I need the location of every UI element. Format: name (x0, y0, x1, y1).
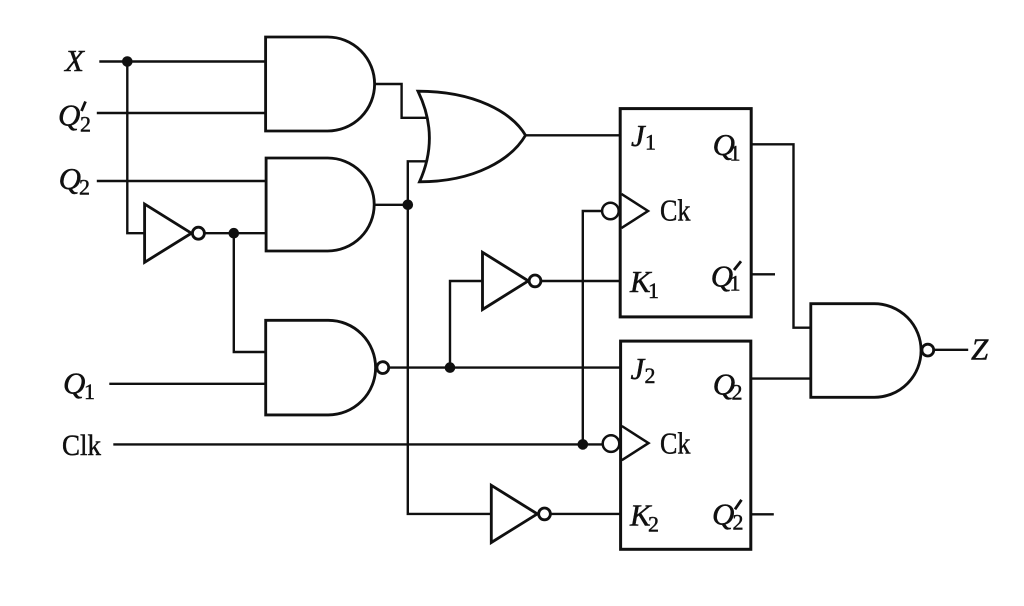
FF1 clock wedge (621, 194, 648, 228)
OR gate O1 (418, 91, 526, 182)
svg-text:X: X (63, 43, 85, 78)
svg-text:2: 2 (732, 380, 743, 405)
AND gate A1 (266, 37, 375, 131)
wire AND2 output to junction (374, 204, 408, 206)
wire Q2' stub (751, 513, 773, 515)
junction NAND1 output (445, 362, 456, 373)
wire Clk junction up to FF1 Ck (583, 211, 601, 444)
wire Clk input (115, 443, 603, 445)
junction X (122, 56, 133, 67)
svg-text:Ck: Ck (660, 426, 691, 461)
wire junction up to inverter2 (K1) (450, 281, 483, 368)
wire inverter1 junction down to NAND1 top input (234, 233, 267, 352)
svg-text:Z: Z (971, 332, 989, 367)
svg-text:2: 2 (645, 363, 656, 388)
flip-flop FF2 box (621, 341, 751, 549)
svg-text:Ck: Ck (660, 193, 691, 228)
inverter I2 (K1) triangle (483, 252, 529, 309)
junction inverter1 output (229, 228, 240, 239)
wire NAND1 output to J2 (390, 366, 622, 368)
svg-text:1: 1 (648, 278, 659, 303)
wire OR output to J1 (526, 134, 622, 136)
wire Q1' stub (751, 273, 774, 275)
wire inverter1 output to AND2 (206, 232, 267, 234)
AND gate A2 (266, 158, 374, 251)
wire Q1 output to NAND2 top input (751, 144, 811, 327)
svg-text:J: J (631, 351, 646, 386)
wire inverter3 output to K2 (551, 513, 621, 515)
wire Q2 input (98, 180, 266, 182)
svg-text:J: J (631, 118, 646, 153)
inverter I2 bubble (529, 275, 541, 287)
FF2 clock wedge (622, 426, 649, 460)
wire junction down to inverter3 (K2) (408, 205, 492, 514)
wire X input (101, 60, 267, 62)
FF1 clock bubble (602, 203, 619, 220)
wire X vertical to inverter (127, 62, 145, 234)
svg-text:Q: Q (63, 366, 85, 401)
svg-text:2: 2 (80, 112, 91, 137)
svg-text:2: 2 (648, 512, 659, 537)
wire Q2' input (98, 112, 266, 114)
svg-text:1: 1 (730, 271, 741, 296)
wire Q2 output to NAND2 bottom input (751, 377, 812, 379)
NAND gate N2 bubble (922, 344, 934, 356)
svg-text:Q: Q (59, 161, 81, 196)
FF2 clock bubble (603, 435, 620, 452)
svg-text:Q: Q (58, 98, 80, 133)
flip-flop FF1 box (620, 109, 751, 317)
wire inverter2 output to K1 (542, 280, 621, 282)
svg-text:1: 1 (645, 130, 656, 155)
NAND gate N1 body (266, 320, 376, 415)
wire junction up to OR bottom input (408, 161, 429, 205)
svg-text:2: 2 (733, 510, 744, 535)
inverter I3 (K2) triangle (491, 485, 537, 542)
wire AND1 output to OR top input (374, 84, 429, 118)
svg-text:1: 1 (730, 141, 741, 166)
svg-text:2: 2 (79, 175, 90, 200)
svg-text:Q: Q (712, 497, 734, 532)
NAND gate N1 bubble (377, 362, 389, 374)
wire Z output (934, 349, 967, 351)
wire Q1 input (111, 383, 267, 385)
junction Clk (578, 439, 589, 450)
svg-text:1: 1 (84, 379, 95, 404)
svg-text:Clk: Clk (62, 429, 101, 462)
NAND gate N2 (output) body (811, 304, 921, 398)
inverter I3 bubble (539, 508, 551, 520)
inverter I1 (X') triangle (145, 204, 192, 262)
inverter I1 bubble (192, 227, 204, 239)
junction AND2 output (403, 200, 414, 211)
